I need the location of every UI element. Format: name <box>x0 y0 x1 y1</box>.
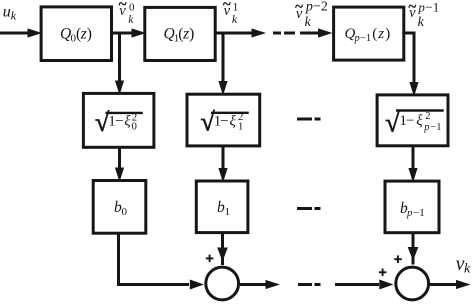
svg-text:v: v <box>224 3 231 19</box>
svg-text:ξ: ξ <box>230 114 237 130</box>
wire sqrtp down to bp-1 <box>412 145 415 170</box>
svg-text:): ) <box>189 26 194 43</box>
plus sign above sum2 <box>394 255 402 263</box>
arrowhead into sum2 left <box>379 280 393 290</box>
svg-text:p: p <box>305 0 313 14</box>
dashed wire segment top row <box>273 32 295 35</box>
svg-text:ξ: ξ <box>416 113 423 129</box>
arrowhead output vk <box>456 280 471 289</box>
svg-text:0: 0 <box>129 2 135 14</box>
svg-text:−1: −1 <box>430 122 441 133</box>
svg-text:k: k <box>305 15 312 30</box>
svg-text:k: k <box>232 12 238 26</box>
label u_k <box>3 4 17 23</box>
svg-text:u: u <box>3 4 11 21</box>
dashed wire segment bottom row <box>298 283 321 286</box>
svg-text:√: √ <box>385 109 400 138</box>
wire sqrt0 down to b0 <box>118 146 121 169</box>
svg-text:z: z <box>377 26 384 42</box>
svg-text:z: z <box>80 26 87 43</box>
svg-text:0: 0 <box>132 121 137 132</box>
svg-text:p: p <box>354 33 360 44</box>
svg-text:−1: −1 <box>413 207 425 219</box>
dashed wire segment middle row <box>297 118 321 121</box>
node junction after Q1 / wire down to sqrt1 <box>222 33 225 81</box>
svg-text:k: k <box>464 262 471 277</box>
arrowhead into sqrt1 <box>218 81 227 96</box>
label v~_k^0 <box>119 0 136 26</box>
svg-text:p: p <box>423 122 429 133</box>
arrowhead into Q0 <box>28 28 43 37</box>
block sqrt(1-xi_1^2) <box>187 94 260 146</box>
svg-text:z: z <box>182 26 189 43</box>
svg-text:): ) <box>87 26 92 43</box>
node junction after Q0 / wire down to sqrt0 <box>118 33 121 82</box>
svg-text:k: k <box>128 14 134 26</box>
arrowhead into sum1 left <box>190 280 204 290</box>
wire Q0 to Q1 <box>111 32 133 35</box>
svg-text:p: p <box>406 207 413 219</box>
arrowhead after Q1 <box>252 28 267 37</box>
block sqrt(1-xi_p-1^2) <box>377 95 448 146</box>
svg-text:−: − <box>220 114 228 130</box>
label v~_k^p-1 <box>408 0 439 30</box>
svg-text:−: − <box>115 114 123 130</box>
arrowhead into sqrt0 <box>115 81 124 96</box>
block Q0(z) <box>41 7 111 61</box>
svg-text:−2: −2 <box>313 0 328 14</box>
block bp-1 <box>385 181 439 233</box>
block Qp-1(z) <box>334 7 404 60</box>
arrowhead into sum2 top <box>408 247 419 261</box>
wire into Qp-1 <box>300 32 319 35</box>
svg-text:k: k <box>418 15 425 30</box>
block Q1(z) <box>145 7 215 60</box>
arrowhead into b0 <box>115 168 124 183</box>
arrowhead into Q1 <box>132 28 147 37</box>
label v~_k^p-2 <box>295 0 328 30</box>
summing node 2 <box>396 267 429 300</box>
label v_k output <box>456 254 471 277</box>
svg-text:v: v <box>409 5 416 21</box>
wire b1 down to sum1 <box>221 233 224 265</box>
svg-text:1: 1 <box>238 121 243 132</box>
label v~_k^1 <box>223 0 239 26</box>
wire into sum2 <box>335 283 379 286</box>
plus sign at sum1 <box>206 255 214 263</box>
arrowhead into sum1 top <box>217 248 228 262</box>
svg-text:(: ( <box>372 26 377 42</box>
wire b0 down and right to sum1 <box>119 233 190 285</box>
block b1 <box>196 181 248 233</box>
wire out of Qp-1 bending down to sqrtp <box>402 33 414 83</box>
dashed wire segment b row <box>297 207 321 210</box>
svg-text:1: 1 <box>225 206 231 218</box>
wire sum2 output <box>430 283 457 286</box>
wire out of Q1 <box>214 32 253 35</box>
block b0 <box>93 181 146 234</box>
wire sqrt1 down to b1 <box>222 145 225 170</box>
summing node 1 <box>206 267 239 300</box>
svg-text:p: p <box>417 0 425 14</box>
svg-text:): ) <box>385 26 390 42</box>
svg-text:2: 2 <box>425 111 430 122</box>
arrowhead into bp-1 <box>408 168 417 183</box>
wire input into Q0 <box>0 32 28 35</box>
arrowhead into Qp-1 <box>318 28 333 37</box>
wire sum1 output <box>240 283 266 286</box>
svg-text:ξ: ξ <box>124 114 131 130</box>
wire bp-1 down to sum2 <box>412 233 415 265</box>
svg-text:k: k <box>11 9 17 23</box>
svg-text:−1: −1 <box>425 0 439 14</box>
svg-text:−: − <box>406 113 414 129</box>
arrowhead into b1 <box>218 168 227 183</box>
arrowhead sum1 output <box>266 280 281 289</box>
svg-text:−1: −1 <box>360 33 371 44</box>
plus sign left of sum2 <box>379 269 387 277</box>
arrowhead into sqrtp <box>409 82 418 97</box>
svg-text:0: 0 <box>122 206 128 218</box>
svg-text:v: v <box>119 3 126 19</box>
svg-text:v: v <box>296 6 303 22</box>
block sqrt(1-xi_0^2) <box>83 93 153 147</box>
